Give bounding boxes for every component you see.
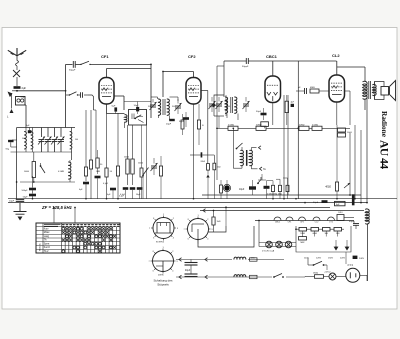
- wire CL2 left stub: [296, 90, 301, 92]
- svg-text:50µF: 50µF: [21, 97, 27, 99]
- wire tuning low bus: [20, 181, 75, 183]
- svg-text:CBC1: CBC1: [275, 222, 281, 224]
- resistor grid leak b: [279, 185, 282, 191]
- svg-text:CY1: CY1: [348, 263, 354, 267]
- svg-text:Radione: Radione: [380, 111, 389, 138]
- svg-text:Kurz2: Kurz2: [44, 246, 51, 249]
- svg-text:Kurz: Kurz: [44, 227, 50, 230]
- wire mains lower: [176, 276, 272, 278]
- svg-text:0.5MΩ: 0.5MΩ: [228, 125, 234, 127]
- box osc bottom: [261, 122, 269, 127]
- capacitor 50uuF top: [245, 58, 247, 64]
- socket diagram right: [188, 219, 209, 240]
- resistor cf2 k: [197, 120, 200, 129]
- capacitor 10uF cf1: [136, 107, 139, 112]
- fuse mains lower: [250, 275, 258, 278]
- wire lamp feed: [258, 221, 260, 247]
- svg-text:+CEC2: +CEC2: [324, 271, 331, 273]
- socket diagram bottom: [153, 251, 174, 272]
- svg-text:400Ω: 400Ω: [325, 186, 331, 189]
- resistor 0.5M left a: [32, 162, 35, 178]
- svg-text:Stöpsels: Stöpsels: [157, 283, 169, 287]
- ground main: [19, 203, 21, 211]
- wire det out: [261, 174, 263, 180]
- resistor 0.5M mid a: [228, 126, 238, 130]
- capacitor 240 psu: [353, 256, 358, 259]
- wire CY1 right: [360, 274, 367, 276]
- switch power: [314, 261, 323, 265]
- wire bus B1: [202, 194, 361, 196]
- selector frame: [296, 226, 351, 252]
- wire left stub down: [11, 93, 13, 109]
- svg-text:500µF: 500µF: [22, 190, 29, 192]
- lamp 3: [285, 241, 292, 248]
- resistor grid leak a: [272, 185, 275, 191]
- svg-text:CBC1: CBC1: [266, 54, 278, 59]
- svg-text:2kΩ: 2kΩ: [336, 233, 340, 235]
- resistor cf2grid: [181, 120, 184, 129]
- switch mid lever: [143, 168, 149, 176]
- choke DRO: [337, 215, 344, 221]
- coil osc coupling: [225, 101, 227, 110]
- svg-text:5µF: 5µF: [112, 105, 116, 107]
- wire rail x361: [360, 130, 362, 203]
- wire table feed a: [53, 208, 55, 224]
- svg-text:0.5MΩ: 0.5MΩ: [312, 125, 318, 127]
- wire rail x367: [366, 98, 368, 203]
- connector box TR: [16, 97, 26, 106]
- wire rail x350: [349, 133, 351, 195]
- svg-text:0097: 0097: [158, 275, 164, 277]
- wire cf1 coupling: [124, 101, 151, 103]
- socket diagram top: [153, 218, 174, 239]
- grid arrow CF2: [212, 103, 217, 107]
- svg-text:2×6,3V 0,1A: 2×6,3V 0,1A: [262, 250, 275, 253]
- svg-text:500: 500: [22, 138, 25, 140]
- wire vertical left of CF1: [65, 64, 67, 127]
- arrow L terminal: [10, 109, 14, 113]
- svg-text:TA: TA: [44, 239, 47, 242]
- svg-text:50µF: 50µF: [313, 202, 319, 204]
- trimmer cf2grid: [175, 105, 181, 107]
- wire CF1 cathode down: [106, 104, 108, 114]
- wire top band bus: [66, 63, 73, 65]
- resistor 180 power: [315, 275, 324, 279]
- wire bus B4: [119, 207, 330, 209]
- trimmer C1c: [54, 128, 56, 138]
- coil psu filter: [365, 209, 369, 224]
- tube CL2: [329, 75, 345, 102]
- connector det bottom: [260, 167, 263, 171]
- wire vert x288: [287, 95, 289, 195]
- wire heater top: [200, 210, 364, 212]
- capacitor osc mid: [261, 113, 267, 116]
- resistor af grid: [220, 185, 223, 193]
- svg-text:Wellenb.: Wellenb.: [40, 243, 42, 251]
- wire IF1 top: [151, 96, 158, 98]
- svg-text:4MΩ: 4MΩ: [310, 87, 315, 89]
- switch antenna X: [13, 70, 20, 77]
- svg-text:DRO: DRO: [338, 212, 343, 214]
- wire CBC1 top cap: [272, 61, 274, 76]
- capacitor 40uF psu: [353, 221, 355, 223]
- output transformer primary: [364, 67, 366, 82]
- tube CF1: [99, 78, 114, 105]
- band switch box: [129, 110, 147, 126]
- capacitor 10uF af2: [264, 186, 270, 189]
- wire CF2 anode down: [201, 90, 208, 92]
- wire mid line: [217, 127, 228, 129]
- svg-text:Sperr.: Sperr.: [44, 242, 50, 245]
- speaker cone: [390, 81, 396, 101]
- svg-text:400Ω: 400Ω: [312, 233, 317, 235]
- svg-text:AU 44: AU 44: [378, 140, 390, 169]
- trimmer IF1: [150, 104, 156, 106]
- coil L1: [25, 128, 27, 132]
- trimmer C1b: [47, 128, 49, 138]
- wire bus B2: [8, 198, 397, 200]
- wire bus B3: [8, 202, 367, 204]
- svg-text:0.5MΩ 1MΩ 1MΩ: 0.5MΩ 1MΩ 1MΩ: [267, 194, 282, 196]
- svg-text:Lang: Lang: [44, 236, 50, 238]
- coil CF1 cathode: [125, 115, 128, 123]
- lamp 1: [266, 241, 273, 248]
- speaker frame: [375, 82, 385, 87]
- IF transformer 2: [240, 150, 243, 165]
- trimmer osc b: [243, 103, 249, 105]
- capacitor cluster a: [83, 182, 89, 185]
- switch cf1 mid: [135, 115, 141, 119]
- node antenna junction: [16, 90, 18, 92]
- capacitor cluster c: [95, 176, 101, 179]
- svg-text:5kΩ: 5kΩ: [217, 167, 221, 169]
- svg-text:0,1µF: 0,1µF: [103, 183, 109, 185]
- wire row y95: [66, 94, 69, 96]
- wire vert x86: [85, 110, 87, 167]
- svg-text:1MΩ: 1MΩ: [96, 171, 101, 173]
- coil antenna choke: [16, 61, 19, 66]
- wire heater mid: [225, 206, 227, 226]
- wire tuning mid bus: [11, 151, 73, 153]
- svg-text:50µF: 50µF: [179, 121, 185, 123]
- svg-text:50000: 50000: [124, 157, 129, 159]
- wire antenna to band switch: [17, 90, 66, 92]
- capacitor elko right: [352, 194, 355, 205]
- heater chain: [255, 220, 354, 222]
- transformer arrows: [334, 246, 338, 250]
- wire psu bottom: [345, 252, 347, 264]
- fuse mains upper: [250, 258, 258, 261]
- switch af: [258, 177, 261, 183]
- connector det top: [259, 146, 262, 150]
- svg-text:CF1: CF1: [101, 54, 109, 59]
- wire tuning left rail: [16, 128, 18, 200]
- capacitor 50uF left: [29, 194, 36, 197]
- output transformer core: [368, 81, 370, 99]
- svg-text:50000: 50000: [138, 163, 143, 165]
- resistor cluster b: [89, 160, 92, 169]
- svg-text:150V: 150V: [328, 257, 334, 259]
- osc transformer: [225, 97, 228, 113]
- resistor pair mid b: [131, 159, 134, 174]
- capacitor 01uF mid b: [130, 187, 136, 190]
- resistor 1k plug: [212, 217, 215, 225]
- plug CY1: [346, 268, 360, 282]
- wire vert osc x217: [216, 66, 218, 180]
- svg-text:20µF: 20µF: [166, 124, 172, 126]
- wire CF2 top: [193, 72, 195, 78]
- wire CF2 cathode: [193, 104, 195, 199]
- volume pot: [207, 164, 210, 171]
- junction dots: [16, 90, 18, 92]
- box 4uF right: [335, 201, 346, 205]
- wire CBC1 down: [272, 103, 274, 126]
- wire vert x146: [146, 125, 148, 199]
- table wave ranges: [36, 223, 120, 253]
- svg-text:0,1µF: 0,1µF: [119, 196, 125, 198]
- capacitor row y95: [80, 92, 82, 98]
- capacitor CL2 grid: [301, 90, 304, 92]
- svg-text:10µF: 10µF: [239, 189, 245, 191]
- wire vert x91: [90, 110, 92, 160]
- IF transformer 1: [157, 97, 159, 99]
- trimmer C1a: [41, 128, 43, 138]
- mains selector taps: [299, 228, 307, 232]
- trimmer osc a: [209, 103, 215, 105]
- svg-text:10kΩ: 10kΩ: [347, 132, 352, 134]
- capacitor 01uF mid a: [123, 187, 129, 190]
- svg-text:110V: 110V: [304, 257, 309, 259]
- capacitor on tuning bus: [28, 130, 32, 133]
- svg-text:40µF: 40µF: [185, 270, 191, 272]
- svg-text:MB2: MB2: [301, 242, 305, 244]
- wire vert x284: [283, 95, 285, 199]
- speaker driver: [381, 87, 389, 96]
- wire table feed b: [74, 208, 76, 224]
- coil mains upper: [234, 257, 246, 259]
- switch mains: [274, 274, 282, 278]
- antenna: [8, 50, 17, 56]
- svg-text:90 99V: 90 99V: [156, 242, 163, 244]
- lamp dial power: [329, 273, 336, 280]
- capacitor antenna trim: [12, 139, 17, 141]
- capacitor 50uuF top: [72, 61, 74, 68]
- wire lamp top: [259, 242, 296, 244]
- svg-text:50000: 50000: [24, 171, 29, 173]
- resistor x141: [140, 168, 143, 177]
- resistor pair mid a: [126, 159, 129, 174]
- svg-text:0.5MΩ: 0.5MΩ: [58, 171, 64, 173]
- capacitor 40uF block: [190, 260, 192, 263]
- wire rail x355: [354, 125, 356, 199]
- resistor 50M mid: [256, 126, 266, 130]
- svg-text:50MΩ: 50MΩ: [299, 125, 305, 127]
- tuning eye dot: [224, 185, 229, 190]
- output transformer secondary: [372, 84, 376, 95]
- resistor R cf1 a: [105, 168, 108, 177]
- resistor 4M CL2: [310, 89, 319, 93]
- wire tuning bus: [17, 127, 75, 129]
- coil L1b: [32, 128, 34, 132]
- resistor af second: [213, 163, 216, 170]
- wire lamp bottom: [259, 246, 296, 248]
- svg-text:1kΩ: 1kΩ: [217, 221, 221, 223]
- capacitor 4uF mid: [110, 188, 116, 191]
- wire antenna stem: [16, 56, 18, 61]
- svg-text:220V: 220V: [340, 257, 346, 259]
- svg-text:10µF: 10µF: [134, 105, 140, 107]
- tube CBC1: [265, 76, 281, 103]
- resistor 50M mid b: [299, 126, 309, 130]
- svg-text:50µF: 50µF: [23, 196, 29, 198]
- svg-text:20kΩ: 20kΩ: [201, 161, 206, 163]
- wire CF1 screen right: [114, 95, 124, 97]
- capacitor 10uF ground: [16, 199, 24, 201]
- wire CL2 plate right: [345, 90, 351, 92]
- wire vertical x151: [150, 64, 152, 118]
- svg-text:240V: 240V: [359, 258, 365, 260]
- trimmer osc c: [216, 103, 222, 105]
- trimmer mid: [151, 165, 157, 167]
- wire vert x96: [95, 110, 97, 158]
- svg-text:000: 000: [227, 106, 230, 108]
- wire osc coupling loop: [214, 95, 224, 116]
- svg-text:500: 500: [75, 139, 78, 141]
- tube CF2: [186, 78, 201, 105]
- capacitor 50uF right: [322, 200, 328, 203]
- resistor cluster a: [84, 167, 87, 176]
- arrow pointer right: [344, 183, 350, 188]
- lamp 2: [276, 241, 283, 248]
- switch row y95: [69, 94, 70, 95]
- resistor 400 CL2: [335, 182, 338, 191]
- wire vert osc left: [223, 61, 225, 97]
- svg-text:180Ω: 180Ω: [313, 273, 318, 275]
- resistor grid leak c: [286, 185, 289, 191]
- svg-text:50MΩ: 50MΩ: [256, 125, 262, 127]
- resistor mid c: [159, 166, 162, 176]
- trimmer C1d: [60, 128, 62, 138]
- capacitor 50uF cf2: [183, 117, 189, 120]
- wire plug loop: [209, 226, 227, 232]
- svg-text:40µF: 40µF: [349, 221, 355, 223]
- coil L2: [71, 128, 73, 132]
- resistor R cf1 b: [116, 166, 119, 176]
- wire CF1 grid top: [107, 68, 152, 70]
- capacitor 5uF CF1 cathode: [114, 107, 117, 111]
- svg-text:50µF: 50µF: [256, 111, 262, 113]
- wire mains upper: [176, 259, 232, 261]
- switch tuning: [40, 163, 42, 166]
- wire connector box down: [25, 104, 26, 106]
- svg-text:Mittel: Mittel: [44, 231, 50, 234]
- coil L3: [68, 162, 71, 179]
- capacitor 20uF cf2: [169, 119, 175, 121]
- wire vert x296: [297, 61, 299, 199]
- coil mains lower: [234, 275, 246, 277]
- svg-text:CF2: CF2: [188, 54, 196, 59]
- svg-text:50µµF: 50µµF: [242, 66, 249, 68]
- capacitor 2uF antenna: [14, 86, 21, 89]
- capacitor 01uF mid c: [137, 187, 143, 190]
- switch band top: [80, 64, 81, 65]
- svg-text:125V: 125V: [316, 257, 322, 259]
- svg-text:CL2: CL2: [332, 53, 340, 58]
- svg-text:1kΩ: 1kΩ: [324, 233, 328, 235]
- resistor cluster c: [96, 158, 99, 168]
- resistor box right lamps a: [299, 237, 307, 240]
- wire CL2 top: [336, 61, 338, 75]
- svg-text:180Ω: 180Ω: [300, 233, 305, 235]
- wire top line CBC: [224, 60, 246, 62]
- capacitor 500uF left: [32, 182, 34, 188]
- svg-text:10µF: 10µF: [9, 201, 15, 203]
- ground arrow left: [8, 92, 13, 98]
- svg-text:50µµF: 50µµF: [69, 70, 76, 72]
- svg-text:ZF = 128,5 kHz: ZF = 128,5 kHz: [41, 205, 73, 210]
- wire CL2 cathode: [336, 102, 338, 125]
- wire af line155: [190, 154, 201, 156]
- resistor 10k right: [338, 128, 346, 132]
- resistor osc right: [285, 101, 288, 112]
- resistor 0.5M mid c: [312, 126, 322, 130]
- capacitor osc blob: [291, 104, 294, 107]
- svg-text:2µF: 2µF: [22, 86, 27, 90]
- svg-text:TA 2: TA 2: [44, 250, 49, 253]
- switch det lever: [237, 143, 243, 149]
